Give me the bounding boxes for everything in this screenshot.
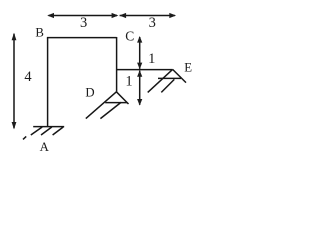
- svg-text:3: 3: [80, 15, 87, 31]
- svg-text:4: 4: [24, 69, 32, 85]
- dimension line 4 (height of column AB): [13, 34, 15, 128]
- support A hatch 3: [53, 127, 64, 135]
- arrowhead left of dim 3 (second): [119, 13, 126, 18]
- support D right side: [116, 92, 128, 104]
- arrowhead right of dim 3 (first): [112, 13, 119, 18]
- svg-text:C: C: [125, 28, 134, 43]
- svg-text:1: 1: [125, 74, 132, 90]
- support A hatch 2: [41, 127, 52, 135]
- support D base: [105, 102, 127, 104]
- arrowhead bottom of lower dim 1: [137, 99, 142, 106]
- support D left side and hatch: [86, 92, 117, 119]
- horizontal member to E: [117, 69, 173, 71]
- beam BC: [47, 37, 117, 39]
- dimension line 1 (upper, C down to member): [139, 37, 141, 69]
- arrowhead top of dim 4: [12, 33, 17, 40]
- support A hatch 1: [31, 127, 42, 135]
- arrowhead bottom of dim 4: [12, 122, 17, 129]
- arrowhead left of dim 3 (first): [47, 13, 54, 18]
- support E left side and hatch: [148, 69, 173, 92]
- arrowhead top of lower dim 1: [137, 70, 142, 77]
- svg-text:A: A: [40, 140, 50, 154]
- svg-text:E: E: [184, 61, 192, 75]
- support E base: [158, 77, 181, 79]
- column AB: [47, 38, 49, 127]
- support D middle hatch: [100, 102, 121, 118]
- dimension line 3 (C to E span): [120, 15, 175, 17]
- svg-text:1: 1: [148, 51, 155, 67]
- support E right side: [173, 69, 186, 82]
- arrowhead right of dim 3 (second): [169, 13, 176, 18]
- svg-text:B: B: [35, 26, 44, 40]
- arrowhead bottom of upper dim 1: [137, 63, 142, 70]
- dimension line 1 (lower, member down to D level): [139, 71, 141, 105]
- support A ground line: [33, 126, 64, 128]
- vertical member C to D: [116, 37, 118, 92]
- svg-text:D: D: [85, 86, 94, 100]
- dimension line 3 (B to C span): [49, 15, 117, 17]
- svg-text:3: 3: [149, 15, 156, 31]
- support E middle hatch: [161, 79, 174, 92]
- arrowhead top of upper dim 1: [137, 36, 142, 43]
- support A hatch dash: [23, 136, 26, 139]
